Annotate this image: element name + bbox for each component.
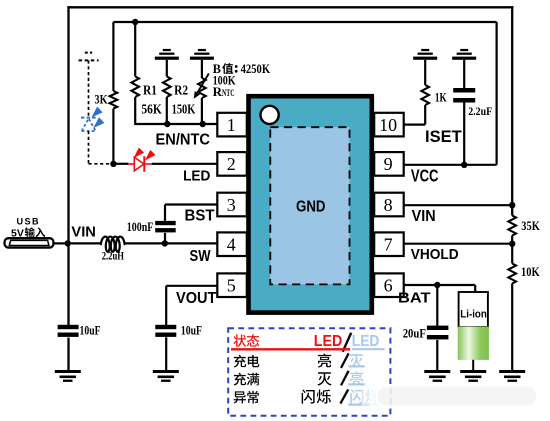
wire power to RNTC bbox=[201, 60, 203, 78]
wire 100nF to SW node bbox=[164, 233, 166, 244]
svg-text:VOUT: VOUT bbox=[176, 290, 217, 307]
svg-text:4250K: 4250K bbox=[241, 62, 271, 76]
svg-text:GND: GND bbox=[296, 198, 326, 215]
wire BAT to 20uF bbox=[436, 285, 438, 326]
pin 4 bbox=[217, 232, 247, 256]
svg-text:150K: 150K bbox=[172, 102, 196, 117]
pin label VOUT bbox=[176, 290, 217, 307]
battery BT1 Li-ion bbox=[458, 292, 489, 360]
wire battery to ground bbox=[472, 360, 474, 372]
svg-text:6: 6 bbox=[384, 276, 393, 296]
svg-text:LED: LED bbox=[183, 167, 210, 184]
svg-text:5V: 5V bbox=[11, 228, 24, 240]
label 10K bbox=[521, 264, 540, 279]
svg-text:3K: 3K bbox=[95, 93, 108, 107]
pin label EN/NTC bbox=[156, 131, 211, 148]
pin 7 bbox=[374, 232, 404, 256]
wire inductor to SW bbox=[125, 242, 218, 244]
status table border bbox=[228, 328, 390, 416]
svg-text:VIN: VIN bbox=[412, 208, 436, 225]
capacitor C-BAT 20uF bbox=[427, 326, 449, 340]
wire 10uF to ground bbox=[165, 337, 167, 371]
label 10uF (input) bbox=[80, 324, 101, 338]
wire VOUT bbox=[166, 286, 217, 325]
node VIN input junction bbox=[65, 240, 71, 246]
LED D1 red bbox=[128, 156, 152, 172]
svg-text:20uF: 20uF bbox=[403, 326, 427, 340]
svg-text:2.2uH: 2.2uH bbox=[102, 249, 125, 263]
capacitor C-OUT 10uF bbox=[155, 325, 176, 337]
resistor R-3K bbox=[110, 91, 118, 109]
svg-text:9: 9 bbox=[384, 154, 393, 174]
svg-text:8: 8 bbox=[384, 195, 393, 215]
svg-text:VHOLD: VHOLD bbox=[411, 246, 459, 263]
wire VCC rail top bbox=[113, 21, 496, 23]
svg-text:BAT: BAT bbox=[398, 290, 431, 307]
label R2 bbox=[174, 83, 188, 98]
dashed ground (blue LED branch) bbox=[79, 53, 99, 61]
table row4 异常 闪烁/闪烁 bbox=[234, 387, 391, 408]
capacitor C-VCC 2.2uF bbox=[453, 88, 475, 103]
svg-text:35K: 35K bbox=[521, 218, 540, 233]
pin label VIN bbox=[412, 208, 436, 225]
node SW junction bbox=[162, 240, 168, 246]
wire VCC bbox=[404, 164, 497, 166]
faint watermark remnant bbox=[378, 387, 536, 406]
wire left frame lower segment to ground bbox=[67, 338, 69, 372]
svg-text:USB: USB bbox=[17, 216, 41, 227]
pin 9 bbox=[374, 152, 404, 176]
label 3K bbox=[95, 93, 108, 107]
svg-text:5: 5 bbox=[227, 276, 236, 296]
svg-text:ISET: ISET bbox=[425, 127, 462, 146]
label 35K bbox=[521, 218, 540, 233]
ground (battery) bbox=[460, 370, 486, 382]
blue light arrows bbox=[92, 107, 105, 128]
pin 6 bbox=[374, 273, 404, 297]
wire 20uF to ground bbox=[436, 340, 438, 372]
op-amp U1 charger IC body bbox=[249, 96, 372, 312]
svg-text:4: 4 bbox=[227, 235, 236, 255]
svg-text:10K: 10K bbox=[521, 264, 540, 279]
svg-text:10uF: 10uF bbox=[80, 324, 101, 338]
wire 35K to VHOLD node bbox=[511, 236, 513, 245]
svg-text:R2: R2 bbox=[174, 83, 188, 98]
svg-text:2.2uF: 2.2uF bbox=[468, 104, 492, 118]
wire top rail (VIN bus) bbox=[67, 6, 513, 8]
svg-text:1: 1 bbox=[227, 115, 236, 135]
svg-text:Li-ion: Li-ion bbox=[460, 309, 487, 321]
wire VHOLD node to 10K bbox=[511, 244, 513, 264]
ground (VOUT cap) bbox=[153, 370, 179, 382]
wire LED to pin2 bbox=[152, 163, 218, 165]
svg-text:10: 10 bbox=[379, 115, 397, 135]
table row3 充满 灭/亮 bbox=[234, 371, 365, 386]
node LED junction bbox=[110, 161, 116, 167]
resistor R-35K bbox=[508, 216, 516, 236]
svg-text:56K: 56K bbox=[141, 102, 162, 117]
label 10uF (VOUT) bbox=[181, 324, 202, 338]
pin label VHOLD bbox=[411, 246, 459, 263]
inductor L1 2.2uH bbox=[101, 237, 125, 252]
wire USB to VIN node bbox=[54, 242, 69, 244]
wire left frame edge / VIN branch bbox=[67, 6, 69, 325]
svg-text:2: 2 bbox=[227, 154, 236, 174]
table row1 状态 LED/LED bbox=[231, 333, 385, 352]
label RNTC bbox=[213, 84, 235, 99]
svg-text:BST: BST bbox=[185, 208, 216, 225]
wire RNTC to EN/NTC bbox=[201, 98, 203, 125]
svg-text:7: 7 bbox=[384, 235, 393, 255]
ground (20uF) bbox=[424, 370, 450, 382]
wire 1K to power bbox=[424, 60, 426, 85]
dashed wire lower bbox=[89, 131, 113, 164]
dashed wire upper bbox=[88, 60, 90, 116]
label VIN (input) bbox=[71, 225, 96, 241]
svg-text:EN/NTC: EN/NTC bbox=[156, 131, 211, 148]
resistor R-10K bbox=[508, 264, 516, 284]
power flag (above R2) bbox=[155, 49, 179, 60]
svg-text:10uF: 10uF bbox=[181, 324, 202, 338]
label 100nF bbox=[127, 220, 154, 234]
label R1 bbox=[143, 83, 157, 98]
table row2 充电 亮/灭 bbox=[234, 353, 365, 368]
label 100K (RNTC) bbox=[213, 73, 236, 87]
pin label ISET bbox=[425, 127, 462, 146]
node EN/NTC junction R2 bbox=[164, 121, 170, 127]
pin 2 bbox=[217, 152, 247, 176]
svg-text:NTC: NTC bbox=[222, 88, 235, 98]
svg-text:3: 3 bbox=[227, 195, 236, 215]
red light arrows bbox=[134, 148, 156, 161]
wire ISET bbox=[404, 105, 425, 125]
pin label LED bbox=[183, 167, 210, 184]
U1 exposed pad GND bbox=[270, 127, 349, 284]
pin label BST bbox=[185, 208, 216, 225]
svg-text:LED: LED bbox=[314, 333, 343, 350]
label 5V input bbox=[11, 227, 45, 239]
svg-text:VCC: VCC bbox=[411, 165, 439, 185]
wire LED left bbox=[113, 163, 128, 165]
resistor R1 bbox=[131, 77, 139, 98]
wire rail to R1 bbox=[134, 22, 136, 77]
svg-text:100nF: 100nF bbox=[127, 220, 154, 234]
USB connector J1 bbox=[5, 238, 54, 247]
label 1K bbox=[435, 90, 447, 105]
label 20uF bbox=[403, 326, 427, 340]
node rail junction R1 bbox=[132, 19, 138, 25]
label GND bbox=[296, 198, 326, 215]
pin 10 bbox=[374, 113, 404, 137]
pin label BAT bbox=[398, 290, 431, 307]
label USB bbox=[17, 216, 41, 227]
wire VCC rail right drop bbox=[496, 22, 498, 165]
node VHOLD junction bbox=[509, 241, 515, 247]
ground (right divider) bbox=[499, 370, 525, 382]
pin 3 bbox=[217, 193, 247, 217]
pin label VCC bbox=[411, 165, 439, 185]
svg-text:1K: 1K bbox=[435, 90, 447, 105]
svg-text:LED: LED bbox=[352, 333, 380, 350]
label 150K bbox=[172, 102, 196, 117]
LED D2 blue (dashed) bbox=[81, 118, 96, 131]
wire 10K to ground bbox=[511, 284, 513, 372]
wire R1 to EN/NTC bbox=[134, 97, 136, 125]
power flag (above 2.2uF) bbox=[452, 49, 476, 60]
capacitor C-IN 10uF bbox=[58, 325, 79, 337]
capacitor C-BST 100nF bbox=[155, 221, 176, 233]
pin 8 bbox=[374, 193, 404, 217]
svg-text:R1: R1 bbox=[143, 83, 157, 98]
label 2.2uH bbox=[102, 249, 125, 263]
label 56K bbox=[141, 102, 162, 117]
wire R2 to EN/NTC bbox=[166, 97, 168, 125]
node EN/NTC junction RNTC bbox=[200, 121, 206, 127]
svg-text:VIN: VIN bbox=[71, 225, 96, 241]
wire VHOLD bbox=[404, 243, 514, 245]
wire 2.2uF to VCC bbox=[463, 98, 465, 165]
resistor R-1K bbox=[421, 85, 429, 105]
label B-value 4250K bbox=[213, 62, 271, 76]
U1 pin-1 marker bbox=[261, 106, 279, 124]
node VCC junction bbox=[461, 162, 467, 168]
wire 2.2uF to power bbox=[463, 60, 465, 88]
wire VIN (pin8) bbox=[404, 204, 514, 206]
power flag (above RNTC) bbox=[190, 49, 214, 60]
wire right frame edge upper (to VIN node) bbox=[511, 6, 513, 215]
wire BST bbox=[165, 205, 217, 221]
ground (input cap) bbox=[55, 370, 81, 382]
wire VCC rail left drop to 3K bbox=[112, 22, 114, 91]
node VIN divider junction bbox=[509, 202, 515, 208]
wire power to R2 bbox=[166, 60, 168, 77]
pin 1 bbox=[217, 113, 247, 137]
thermistor RNTC bbox=[194, 74, 209, 99]
pin 5 bbox=[217, 273, 247, 297]
wire VIN node to inductor bbox=[69, 242, 102, 244]
wire BAT bbox=[404, 285, 475, 292]
wire 3K to LED node bbox=[112, 109, 114, 165]
pin label SW bbox=[190, 248, 211, 265]
svg-text:SW: SW bbox=[190, 248, 211, 265]
resistor R2 bbox=[163, 77, 171, 98]
label 2.2uF bbox=[468, 104, 492, 118]
power flag (above 1K) bbox=[413, 49, 437, 60]
wire EN/NTC bbox=[135, 123, 217, 125]
node BAT junction bbox=[434, 282, 440, 288]
